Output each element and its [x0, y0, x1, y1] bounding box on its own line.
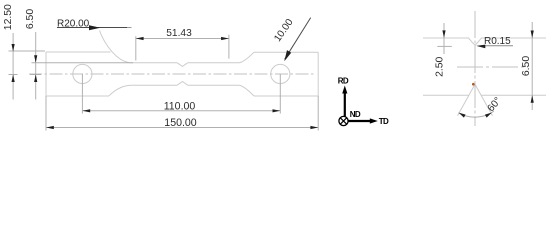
wire left end edge — [45, 52, 47, 96]
svg-text:ND: ND — [350, 110, 361, 119]
TD axis arrow (right) — [348, 120, 371, 122]
svg-text:150.00: 150.00 — [164, 117, 197, 129]
notch V top (main view) — [177, 63, 188, 67]
hole right — [271, 64, 290, 83]
RD axis arrow (up) — [344, 92, 346, 117]
wire grip top edge left — [46, 51, 111, 53]
wire grip bottom edge left — [46, 95, 109, 97]
detail horizontal centerline — [457, 66, 528, 68]
wire narrow bottom edge right of notch — [188, 84, 239, 86]
notch V bottom (main view) — [177, 82, 188, 86]
fillet arc bottom-left — [109, 85, 132, 96]
hole left — [73, 64, 92, 83]
dimension 110.00 (between hole centers) — [82, 74, 280, 114]
svg-text:RD: RD — [338, 77, 349, 86]
svg-text:6.50: 6.50 — [25, 9, 36, 29]
R20 fillet arc top-left with extension to leader — [100, 31, 132, 63]
detail top edge with V-notch — [423, 38, 546, 116]
wire narrow top edge left of notch — [132, 62, 178, 64]
detail bottom edge (interrupted by notch flanks) — [423, 94, 469, 96]
wire narrow top edge right of notch — [188, 62, 239, 64]
angle dimension 60 deg arc — [459, 111, 494, 117]
svg-text:R0.15: R0.15 — [484, 36, 511, 47]
leader R20.00 — [57, 27, 127, 29]
dimension 150.00 (overall length) — [46, 96, 318, 131]
notch vertex marker dot (orange) — [472, 83, 475, 86]
dimension 6.50 (detail width) — [531, 22, 533, 110]
detail vertical centerline — [474, 11, 476, 126]
notch flank construction lines (60 deg V) — [458, 84, 476, 116]
fillet arc bottom-right — [239, 85, 255, 96]
wire narrow bottom edge left of notch — [132, 84, 178, 86]
svg-text:60°: 60° — [486, 95, 504, 114]
wire right end edge — [317, 52, 319, 96]
svg-text:10.00: 10.00 — [272, 17, 296, 44]
axes triad RD / ND / TD — [338, 77, 389, 127]
svg-text:110.00: 110.00 — [164, 101, 196, 113]
centerline main view (dash-dot) — [29, 73, 314, 75]
leader 10.00 (hole diameter) — [285, 18, 311, 60]
svg-text:12.50: 12.50 — [3, 4, 14, 30]
svg-text:6.50: 6.50 — [521, 56, 532, 76]
dimension 2.50 (notch depth, detail) — [437, 23, 452, 54]
svg-text:TD: TD — [379, 117, 389, 126]
specimen outline (dog-bone tensile sample, light gray) — [46, 31, 318, 97]
wire grip top edge right — [254, 51, 318, 53]
svg-text:R20.00: R20.00 — [57, 19, 90, 30]
dimension 12.50 (left, half-width to centerline) — [9, 33, 46, 100]
leader R0.15 (notch tip radius) — [483, 45, 513, 47]
wire grip bottom edge right — [254, 95, 318, 97]
svg-text:2.50: 2.50 — [435, 56, 446, 76]
dimension 6.50 (left, half-width to centerline) — [30, 32, 133, 100]
ND symbol circle-cross (into page) — [339, 116, 348, 125]
fillet arc top-right — [239, 52, 255, 63]
dimension 51.43 (top) — [136, 35, 229, 61]
svg-text:51.43: 51.43 — [166, 28, 192, 39]
